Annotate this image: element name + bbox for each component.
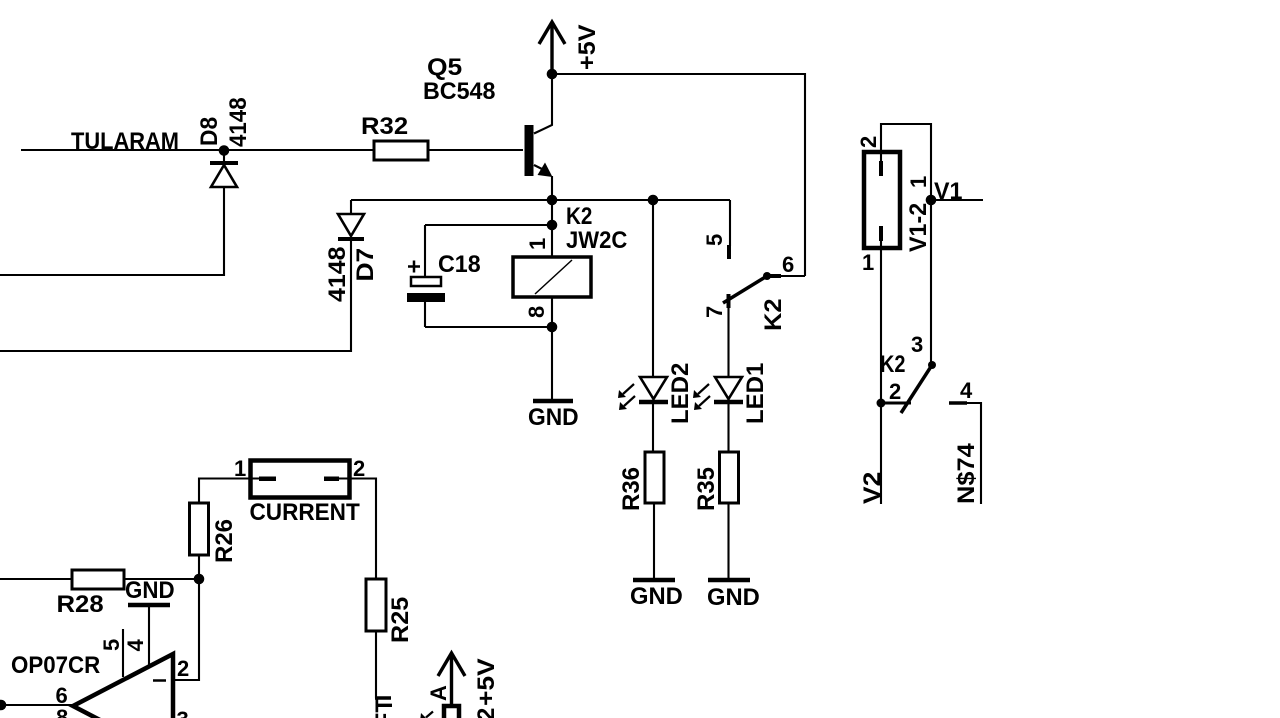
wire pin5 stub of switch K2 [729,200,730,259]
relay K2 coil box [513,257,591,297]
svg-text:C18: C18 [438,252,481,278]
diode D8 [210,150,238,187]
svg-text:5: 5 [702,234,727,246]
wire +5V rail to right and down [552,74,805,276]
op-amp U1 OP07CR [73,654,173,718]
svg-text:LEFT: LEFT [371,698,398,718]
svg-text:4148: 4148 [224,97,251,147]
wire junction down to opamp pin2 [173,579,199,680]
svg-text:R25: R25 [388,597,414,643]
wire CURRENT pin2 to R25 [350,479,376,580]
label + of C18 [408,261,420,273]
node junction emitter [547,195,558,206]
wire LED2 to R36 [652,401,654,452]
ground GND at opamp pin4 [128,603,170,608]
wire from D7 cathode down-left [0,241,351,351]
component box partial bottom [444,706,459,718]
svg-text:2: 2 [353,456,365,481]
resistor R36 [645,452,664,503]
node junction at D8 anode [219,145,230,156]
connector V1-2 box [864,152,900,248]
node junction relay coil top [547,220,558,231]
svg-text:K2: K2 [880,350,905,377]
wire R25 down to pin stub [375,631,377,698]
svg-text:8: 8 [524,306,549,318]
wire V1-2 pin2 up over to V1 node [881,124,931,365]
node junction at +5V [547,69,558,80]
wire net V1 stub [931,199,983,201]
wire relay junction down to ground [551,327,553,399]
wire left to R28 [0,578,72,580]
svg-text:R36: R36 [618,467,645,511]
ground GND of R35 [708,578,750,583]
wire opamp pin6 [0,704,73,706]
switch K2 contact pins 6-7 [723,272,805,308]
svg-text:R35: R35 [693,467,720,511]
wire C18 bottom to relay junction [425,326,552,328]
svg-text:V1: V1 [934,179,962,205]
ground GND relay [533,399,573,404]
wire pin stub tick bottom [375,696,391,700]
wire GND to opamp pin 4 [148,607,150,667]
svg-text:GND: GND [630,583,683,610]
wire down to LED2 [652,200,654,377]
power +5V supply arrow bottom [438,653,465,705]
connector CURRENT box [250,461,350,498]
svg-text:V2: V2 [859,472,886,504]
svg-text:2: 2 [473,708,500,718]
switch K2 contact pins 2-3 [877,361,937,413]
svg-text:GND: GND [707,584,760,611]
svg-text:1: 1 [525,238,550,250]
led LED1 [693,377,743,410]
node junction relay bottom [547,322,558,333]
led arrow partial bottom [420,712,433,718]
svg-text:2: 2 [856,136,881,148]
wire R36 to ground [653,503,655,578]
svg-text:8: 8 [56,705,68,718]
svg-text:3: 3 [911,332,923,357]
svg-text:JW2C: JW2C [566,226,628,253]
wire CURRENT pin1 to R26 [199,479,250,504]
wire LED1 to R35 [727,401,729,452]
transistor Q5 [525,74,553,200]
wire net TULARAM horizontal [21,149,374,151]
resistor R32 [374,141,428,160]
wire V1-2 pin1 down to V2 [880,241,882,504]
svg-text:V1-2: V1-2 [906,203,932,252]
svg-text:GND: GND [528,403,579,430]
svg-text:R32: R32 [361,114,408,140]
node junction pin6 edge [0,700,6,711]
svg-text:D8: D8 [195,117,222,146]
svg-text:LED2: LED2 [667,363,694,424]
capacitor C18 [407,225,445,327]
svg-text:7: 7 [702,306,727,318]
svg-text:LED1: LED1 [742,363,769,424]
wire R28 to junction [124,578,199,580]
wire R35 to ground [727,503,729,578]
ground GND of R36 [633,578,675,583]
svg-text:CURRENT: CURRENT [250,498,360,525]
svg-text:GND: GND [125,576,175,603]
svg-text:1: 1 [862,250,874,275]
wire R32 to Q5 base [428,149,523,151]
node junction V1 [926,195,937,206]
svg-text:D7: D7 [352,248,379,282]
wire emitter junction down to relay [551,200,553,257]
svg-text:4: 4 [960,378,973,403]
svg-text:A: A [426,685,451,701]
wire R26 down [198,555,200,579]
wire horizontal net at y200 [351,199,730,201]
svg-text:+5V: +5V [575,24,601,70]
svg-text:N$74: N$74 [954,443,980,504]
node junction R26-R28 [194,574,205,585]
wire relay pin8 to junction [551,297,553,327]
svg-text:2: 2 [889,379,901,404]
svg-text:OP07CR: OP07CR [11,651,101,678]
svg-text:BC548: BC548 [423,79,495,105]
svg-text:R26: R26 [211,519,238,563]
svg-text:TULARAM: TULARAM [71,127,179,154]
svg-text:4148: 4148 [324,247,350,302]
wire C18 top to relay junction [425,224,552,226]
svg-text:R28: R28 [57,592,104,618]
wire from D8 cathode down-left [0,187,224,275]
wire pin7 down to LED1 [727,308,729,377]
svg-text:5: 5 [99,639,124,651]
svg-text:Q5: Q5 [427,54,462,81]
diode D7 [338,200,364,239]
svg-text:+5V: +5V [473,658,500,706]
svg-text:1: 1 [234,456,246,481]
svg-text:3: 3 [177,707,189,718]
resistor R26 [190,503,209,555]
power +5V supply arrow top [539,22,565,74]
svg-text:K2: K2 [761,298,787,331]
svg-text:1: 1 [906,176,931,188]
resistor R28 [72,570,124,589]
led LED2 [618,377,668,410]
svg-text:6: 6 [782,252,794,277]
node junction LED2 branch [648,195,659,206]
resistor R25 [366,579,386,631]
svg-text:2: 2 [177,656,189,681]
resistor R35 [720,452,739,503]
wire opamp pin 5 [122,629,124,677]
wire pin4 stub and net N$74 [949,403,981,504]
svg-text:4: 4 [123,639,148,652]
